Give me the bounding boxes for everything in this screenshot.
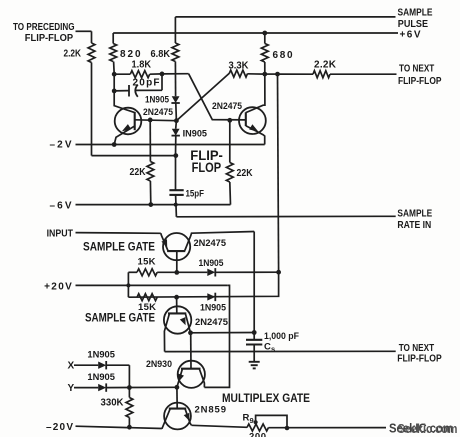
label 3.3K bbox=[229, 60, 250, 71]
wire +6V rail bbox=[113, 32, 398, 34]
label 680 bbox=[273, 50, 293, 61]
node U bypass left bbox=[254, 420, 258, 424]
node T 330K -20V bbox=[127, 425, 132, 430]
svg-text:INPUT: INPUT bbox=[47, 228, 73, 239]
resistor R11 15K bbox=[137, 294, 157, 301]
wire 22K right top lead bbox=[229, 120, 231, 162]
wire +20V rail bbox=[76, 284, 228, 286]
transistor Q6 collector bbox=[162, 409, 170, 429]
svg-text:22K: 22K bbox=[130, 167, 147, 178]
label 2N2475 Q2 bbox=[212, 101, 243, 112]
label 2N2475 Q3 bbox=[194, 238, 227, 249]
wire to next flip-flop lower bbox=[165, 350, 396, 352]
resistor R4 680 bbox=[261, 44, 268, 63]
svg-text:6.8K: 6.8K bbox=[151, 49, 171, 60]
label 820 bbox=[120, 49, 141, 60]
wire 15K1 corner bbox=[128, 271, 137, 273]
wire 15K feed vertical bbox=[127, 272, 129, 297]
node F base left tap bbox=[148, 118, 153, 123]
node preceding join bbox=[173, 153, 178, 158]
wire SG2 emitter down to Q5 base bbox=[190, 333, 192, 369]
transistor Q2 emitter bbox=[246, 124, 265, 144]
svg-text:R: R bbox=[243, 412, 250, 423]
label 200 bbox=[249, 432, 266, 437]
resistor R5 1.8K bbox=[130, 71, 149, 78]
label TO NEXT FLIP-FLOP lower bbox=[397, 343, 442, 364]
svg-text:20pF: 20pF bbox=[133, 77, 160, 88]
wire 330K bottom lead bbox=[128, 418, 130, 428]
svg-text:X: X bbox=[68, 361, 75, 372]
diode D2 1N905 flip-flop bbox=[172, 129, 180, 136]
svg-text:15pF: 15pF bbox=[186, 189, 205, 200]
wire 820 top lead bbox=[112, 33, 114, 44]
wire output vertical bbox=[278, 74, 279, 272]
resistor R9b 22K right bbox=[226, 163, 233, 183]
svg-text:2N2475: 2N2475 bbox=[143, 107, 174, 118]
wire node B right bbox=[162, 73, 189, 75]
svg-text:9: 9 bbox=[250, 416, 254, 425]
transistor Q1 base bar bbox=[134, 112, 136, 130]
label R9 bbox=[243, 412, 254, 425]
transistor Q3 base bar bbox=[167, 250, 185, 252]
svg-text:SAMPLE: SAMPLE bbox=[397, 209, 432, 220]
node K -6V cap bbox=[174, 203, 178, 207]
svg-text:Seekic.com: Seekic.com bbox=[398, 422, 458, 436]
svg-text:TO PRECEDING: TO PRECEDING bbox=[13, 22, 75, 33]
svg-text:PULSE: PULSE bbox=[398, 19, 428, 30]
svg-text:1.8K: 1.8K bbox=[132, 60, 152, 71]
label TO NEXT FLIP-FLOP upper bbox=[398, 64, 442, 88]
label +6V bbox=[400, 30, 421, 41]
wire Cs bottom lead bbox=[253, 345, 255, 362]
transistor Q1 collector bbox=[114, 91, 135, 113]
svg-text:200: 200 bbox=[249, 432, 266, 437]
node B coupling bbox=[160, 72, 165, 77]
node D right collector bbox=[262, 72, 267, 77]
node 680 top bbox=[262, 31, 267, 36]
wire Y input bbox=[74, 387, 98, 389]
wire 15pF down to sample rate line bbox=[175, 195, 178, 217]
wire input bbox=[76, 232, 161, 235]
svg-text:+20V: +20V bbox=[44, 281, 72, 292]
wire 680 bottom lead bbox=[264, 62, 266, 74]
label 1000pF bbox=[264, 331, 299, 342]
wire 820 bottom lead bbox=[113, 62, 116, 75]
svg-text:1N905: 1N905 bbox=[87, 372, 115, 383]
svg-text:2N2475: 2N2475 bbox=[195, 317, 229, 328]
diode D1 1N905 bbox=[171, 96, 179, 103]
wire -6V rail bbox=[76, 204, 231, 206]
label +20V bbox=[44, 281, 72, 292]
svg-text:22K: 22K bbox=[237, 168, 254, 179]
wire 680 top lead bbox=[264, 33, 266, 44]
wire diagonal left base to 3.3K bbox=[176, 73, 229, 120]
wire 22K left top lead bbox=[149, 120, 151, 162]
wire -2V rail bbox=[76, 144, 265, 146]
svg-text:2.2K: 2.2K bbox=[314, 59, 337, 70]
node S XY join bbox=[127, 385, 132, 390]
label 2N930 bbox=[146, 359, 172, 370]
transistor Q1 2N2475 circle bbox=[115, 108, 142, 135]
wire D3 to output join bbox=[215, 271, 278, 273]
wire 6.8K top lead bbox=[174, 17, 176, 43]
node Q hold bbox=[252, 330, 257, 335]
wire cap20 right lead bbox=[136, 74, 162, 91]
wire sample pulse rail bbox=[175, 16, 395, 18]
wire R9 bypass bbox=[256, 415, 287, 428]
capacitor C1 20pF bbox=[129, 85, 138, 97]
svg-text:–2V: –2V bbox=[50, 140, 72, 151]
label SAMPLE PULSE bbox=[398, 7, 433, 30]
node O SG2 base bbox=[174, 295, 179, 300]
wire -20V left bbox=[76, 426, 162, 428]
node A left collector bbox=[112, 72, 117, 77]
wire X input bbox=[74, 364, 98, 366]
svg-text:2.2K: 2.2K bbox=[64, 48, 82, 59]
node M output join bbox=[276, 270, 281, 275]
svg-text:RATE IN: RATE IN bbox=[397, 220, 431, 231]
label 1N905 DX bbox=[87, 350, 115, 361]
wire left collector to 1.8K bbox=[114, 73, 130, 75]
resistor R2 820 bbox=[110, 44, 117, 62]
node J 22K -6V bbox=[148, 202, 153, 207]
node P SG2 emitter bbox=[188, 330, 193, 335]
svg-text:–20V: –20V bbox=[46, 422, 73, 433]
label 2N859 bbox=[195, 405, 227, 416]
resistor R13 R9 200 bbox=[247, 424, 269, 431]
svg-text:TO NEXT: TO NEXT bbox=[399, 64, 434, 75]
svg-text:2N859: 2N859 bbox=[195, 405, 227, 416]
transistor Q2 base bar bbox=[245, 112, 247, 126]
resistor R3 6.8K bbox=[172, 43, 179, 62]
label Cs bbox=[264, 341, 275, 353]
svg-text:1N905: 1N905 bbox=[199, 258, 225, 269]
node L SG1 base bbox=[174, 270, 179, 275]
label -2V bbox=[50, 140, 72, 151]
wire 330K top lead bbox=[128, 388, 130, 398]
transistor Q6 emitter bbox=[184, 409, 192, 425]
wire cap20 left lead bbox=[114, 74, 129, 91]
capacitor C3 1000pF Cs bbox=[246, 340, 262, 345]
label 15K 2 bbox=[138, 302, 156, 313]
label FLIP-FLOP bbox=[190, 147, 223, 175]
label 22K left bbox=[130, 167, 147, 178]
wire SG1 collector down bbox=[253, 232, 255, 333]
wire -20V right to R9 bbox=[192, 425, 248, 427]
transistor Q1 emitter bbox=[114, 124, 135, 144]
label 15K 1 bbox=[138, 256, 156, 267]
wire 15K1 to diode bbox=[157, 271, 207, 273]
transistor Q2 collector bbox=[246, 74, 265, 113]
label 15pF bbox=[186, 189, 205, 200]
wire Cs top lead bbox=[253, 333, 255, 340]
svg-text:FLIP-FLOP: FLIP-FLOP bbox=[25, 33, 74, 44]
resistor R8 22K left bbox=[147, 162, 154, 182]
svg-text:1N905: 1N905 bbox=[145, 94, 170, 105]
label Y bbox=[68, 383, 75, 394]
svg-text:+6V: +6V bbox=[400, 30, 421, 41]
svg-text:SAMPLE GATE: SAMPLE GATE bbox=[83, 242, 155, 254]
wire Q1 base lead bbox=[135, 119, 177, 122]
svg-text:3.3K: 3.3K bbox=[229, 60, 250, 71]
label 2N2475 Q1 bbox=[143, 107, 174, 118]
node R multiplex base bbox=[175, 385, 180, 390]
resistor R7 2.2K output bbox=[313, 71, 330, 78]
diode D3 1N905 sample1 bbox=[207, 268, 215, 276]
wire Q6 base lead bbox=[176, 387, 178, 408]
diode D4 1N905 sample2 bbox=[207, 293, 215, 301]
node N +20V feed bbox=[126, 283, 130, 287]
ground bbox=[249, 362, 260, 369]
node C cap left bbox=[112, 89, 117, 94]
wire cross diagonal to right base bbox=[189, 74, 246, 120]
node H right base tap bbox=[227, 118, 232, 123]
resistor R6 3.3K bbox=[229, 70, 247, 77]
label IN905 D2 bbox=[183, 129, 208, 140]
label 2.2K bbox=[64, 48, 82, 59]
svg-text:FLIP-FLOP: FLIP-FLOP bbox=[398, 76, 442, 87]
transistor Q6 base bar bbox=[169, 408, 186, 410]
wire sample rate line bbox=[176, 215, 395, 218]
diode D5 1N905 X bbox=[98, 361, 106, 369]
transistor Q4 collector bbox=[164, 314, 169, 352]
svg-text:2N930: 2N930 bbox=[146, 359, 172, 370]
label X bbox=[68, 361, 75, 372]
label 1N905 D3 bbox=[199, 258, 225, 269]
wire 22K left bottom lead bbox=[149, 181, 151, 205]
transistor Q4 base bar bbox=[168, 312, 186, 314]
svg-text:FLOP: FLOP bbox=[192, 159, 222, 175]
label 1N905 D1 bbox=[145, 94, 170, 105]
transistor Q4 emitter bbox=[180, 314, 191, 333]
label 6.8K bbox=[151, 49, 171, 60]
wire output jog down bbox=[128, 272, 278, 297]
resistor R10 15K bbox=[137, 269, 157, 276]
wire 2.2K down and right to node bbox=[92, 63, 176, 156]
transistor Q3 emitter bbox=[161, 233, 168, 250]
wire diode D1 to left base node bbox=[175, 103, 178, 121]
svg-text:1N905: 1N905 bbox=[200, 302, 227, 313]
wire 2.2K to next flip-flop bbox=[330, 73, 397, 75]
wire X to join bbox=[106, 365, 129, 387]
label TO PRECEDING FLIP-FLOP bbox=[13, 22, 75, 44]
wire Q3 base down bbox=[176, 251, 178, 272]
wire Y line to base node bbox=[106, 386, 177, 388]
label SAMPLE GATE 1 bbox=[83, 242, 155, 254]
wire SG2 emitter to hold node bbox=[191, 332, 255, 334]
svg-text:Y: Y bbox=[68, 383, 75, 394]
transistor Q5 collector bbox=[200, 369, 205, 387]
label SAMPLE GATE 2 bbox=[85, 313, 155, 325]
transistor Q6 2N859 circle bbox=[164, 403, 191, 430]
svg-text:–6V: –6V bbox=[50, 200, 72, 211]
svg-text:15K: 15K bbox=[138, 256, 156, 267]
label 1N905 D4 bbox=[200, 302, 227, 313]
transistor Q3 2N2475 circle bbox=[163, 233, 190, 260]
node I emitter -2V bbox=[112, 142, 117, 147]
svg-text:1N905: 1N905 bbox=[87, 350, 115, 361]
transistor Q3 collector bbox=[185, 232, 254, 251]
wire 1.8K to node B bbox=[150, 73, 162, 75]
svg-text:330K: 330K bbox=[101, 397, 125, 408]
node V bypass right bbox=[285, 426, 290, 431]
wire output node to 2.2K bbox=[278, 73, 314, 75]
transistor Q4 2N2475 circle bbox=[164, 306, 191, 333]
label 1N905 DY bbox=[87, 372, 115, 383]
wire 22K right bottom lead bbox=[229, 182, 232, 205]
resistor R12 330K bbox=[126, 398, 133, 418]
transistor Q2 2N2475 circle bbox=[239, 107, 266, 134]
label INPUT bbox=[47, 228, 73, 239]
label SAMPLE RATE IN bbox=[397, 209, 432, 232]
label 2.2K output bbox=[314, 59, 337, 70]
wire Q4 base up bbox=[176, 297, 178, 313]
svg-text:2N2475: 2N2475 bbox=[194, 238, 227, 249]
label -20V bbox=[46, 422, 73, 433]
wire +20V down to 2N930 collector bbox=[204, 285, 229, 387]
label 330K bbox=[101, 397, 125, 408]
label -6V bbox=[50, 200, 72, 211]
wire collector node to output node bbox=[265, 73, 278, 75]
node E output bbox=[275, 72, 280, 77]
svg-text:2N2475: 2N2475 bbox=[212, 101, 243, 112]
transistor Q5 base bar bbox=[181, 368, 201, 370]
node G left base junction bbox=[174, 118, 179, 123]
label 22K right bbox=[237, 168, 254, 179]
wire R9 right bbox=[269, 427, 387, 429]
wire center vertical bbox=[175, 136, 177, 191]
svg-text:SAMPLE GATE: SAMPLE GATE bbox=[85, 313, 155, 325]
watermark bbox=[389, 421, 458, 436]
wire 6.8K to diode bbox=[174, 62, 176, 97]
transistor Q5 2N930 circle bbox=[178, 361, 205, 388]
svg-text:1,000 pF: 1,000 pF bbox=[264, 331, 299, 342]
transistor Q5 emitter bbox=[177, 369, 184, 387]
resistor R1 2.2K input bbox=[88, 43, 95, 63]
svg-text:15K: 15K bbox=[138, 302, 156, 313]
capacitor C2 15pF bbox=[169, 190, 183, 195]
svg-text:MULTIPLEX GATE: MULTIPLEX GATE bbox=[222, 393, 310, 405]
wire 3.3K to right collector node bbox=[248, 73, 265, 75]
label 2N2475 Q4 bbox=[195, 317, 229, 328]
label 1.8K bbox=[132, 60, 152, 71]
wire left base node down bbox=[175, 121, 178, 129]
svg-text:IN905: IN905 bbox=[183, 129, 208, 140]
label MULTIPLEX GATE bbox=[222, 393, 310, 405]
diode D6 1N905 Y bbox=[98, 383, 106, 391]
wire from preceding flip-flop bbox=[76, 31, 92, 43]
svg-text:820: 820 bbox=[120, 49, 141, 60]
svg-text:SAMPLE: SAMPLE bbox=[398, 7, 433, 18]
svg-text:FLIP-FLOP: FLIP-FLOP bbox=[397, 353, 442, 364]
label 20pF bbox=[133, 77, 160, 88]
svg-text:680: 680 bbox=[273, 50, 293, 61]
